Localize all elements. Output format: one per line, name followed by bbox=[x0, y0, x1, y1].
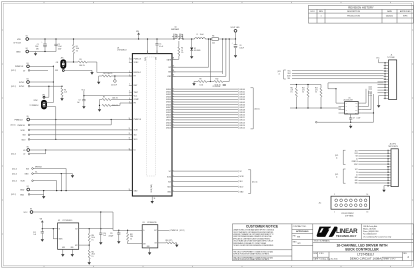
svg-text:⎜SCKI: ⎜SCKI bbox=[239, 175, 244, 178]
ground C7 bbox=[349, 124, 352, 128]
turret E6 LD bbox=[23, 147, 30, 152]
node stack A labels bbox=[352, 150, 359, 166]
junction C2 top bbox=[55, 38, 56, 39]
svg-text:LED15: LED15 bbox=[368, 94, 372, 96]
svg-text:⎜LED04: ⎜LED04 bbox=[239, 98, 245, 101]
junction R14 bot bbox=[89, 244, 90, 245]
junction R9/R10 bbox=[210, 81, 211, 82]
svg-text:DEMO CIRCUIT 1608A: DEMO CIRCUIT 1608A bbox=[350, 256, 381, 260]
junction U2 in bbox=[42, 228, 43, 229]
U1 left pin stubs bbox=[129, 59, 133, 191]
wire VCC riser bbox=[100, 212, 102, 229]
wire JP2 top pin bbox=[45, 86, 49, 97]
svg-text:PWMCLK: PWMCLK bbox=[18, 125, 26, 127]
title block outline bbox=[232, 224, 413, 261]
svg-text:TO PWMCLK: TO PWMCLK bbox=[30, 105, 39, 107]
junction JP1/R1 bbox=[73, 61, 74, 62]
svg-text:2200pF: 2200pF bbox=[109, 235, 114, 237]
svg-text:C14: C14 bbox=[103, 233, 106, 235]
wire U5 right riser d bbox=[362, 94, 374, 113]
pin SDI-EE row bbox=[12, 167, 42, 171]
wire eeprom SDA rail bbox=[290, 107, 341, 109]
svg-text:(DC1 2): (DC1 2) bbox=[11, 154, 16, 156]
svg-text:LT3745EUJ: LT3745EUJ bbox=[117, 50, 126, 52]
svg-text:(DC1: (DC1 bbox=[278, 71, 281, 73]
svg-text:(DC1 2): (DC1 2) bbox=[12, 181, 17, 183]
svg-text:⎜SDO: ⎜SDO bbox=[239, 185, 244, 188]
svg-text:10: 10 bbox=[181, 50, 183, 52]
svg-text:IC NO.: IC NO. bbox=[319, 253, 324, 255]
wire LED14 bbox=[172, 124, 245, 127]
wire J1 SCKI row bbox=[292, 75, 384, 77]
wire LED13 bbox=[172, 121, 245, 124]
svg-text:⎜LED10: ⎜LED10 bbox=[239, 114, 245, 117]
wire J1 gnd riser bbox=[379, 96, 384, 104]
wire U3 out bbox=[158, 229, 169, 231]
svg-text:(DC1: (DC1 bbox=[335, 155, 338, 157]
svg-text:(DC1 2): (DC1 2) bbox=[11, 194, 16, 196]
ground C14 bbox=[99, 241, 102, 245]
ground J4 bbox=[382, 188, 385, 192]
svg-text:CONTRACT NO.: CONTRACT NO. bbox=[293, 225, 307, 228]
svg-text:WP: WP bbox=[355, 106, 357, 108]
svg-text:R14: R14 bbox=[92, 235, 95, 237]
svg-text:10.0k: 10.0k bbox=[92, 237, 96, 239]
svg-text:0.1uF: 0.1uF bbox=[159, 46, 163, 48]
wire R6/R7 left join bbox=[100, 100, 103, 108]
wire J1 SDI row bbox=[292, 77, 384, 79]
wire J1 VCC row bbox=[292, 70, 384, 72]
svg-text:R12: R12 bbox=[302, 87, 305, 89]
svg-text:PWMCLK: PWMCLK bbox=[15, 119, 24, 121]
svg-text:GND: GND bbox=[20, 189, 25, 191]
wire R14 to BYP bbox=[79, 243, 90, 246]
ground JP1 bbox=[90, 70, 93, 74]
junction JP2/SDO bbox=[55, 139, 56, 140]
wire LED07 bbox=[172, 106, 245, 109]
junction R2 top bbox=[61, 86, 62, 87]
svg-text:PWMCLK: PWMCLK bbox=[15, 66, 24, 68]
resistor R15 bbox=[88, 245, 95, 260]
turret E3 PWMCLK bbox=[15, 63, 29, 68]
svg-text:63V: 63V bbox=[36, 48, 39, 50]
pin GND2 row bbox=[11, 194, 30, 197]
svg-text:JP2: JP2 bbox=[42, 94, 45, 96]
junction C5 top bbox=[156, 38, 157, 39]
svg-text:54.9k 1%: 54.9k 1% bbox=[215, 85, 222, 87]
svg-text:⎜LED06: ⎜LED06 bbox=[239, 103, 245, 106]
svg-text:L1: L1 bbox=[197, 34, 199, 36]
svg-text:OFF: OFF bbox=[55, 70, 58, 72]
U1 left pin numbers bbox=[129, 57, 131, 191]
svg-text:14: 14 bbox=[367, 194, 369, 196]
svg-text:C5: C5 bbox=[159, 44, 161, 46]
bottom pins bracket bbox=[248, 170, 258, 194]
svg-text:1uF: 1uF bbox=[77, 102, 80, 104]
wire LED11 bbox=[172, 116, 245, 119]
junction C15 bbox=[118, 230, 119, 231]
wire J1 SDO row bbox=[292, 72, 384, 74]
wire SCKI-EE row bbox=[33, 181, 56, 191]
wire U2 input bbox=[42, 228, 57, 230]
resistor R2 bbox=[61, 88, 67, 97]
wire LED02 bbox=[172, 93, 245, 96]
svg-text:SCKI: SCKI bbox=[21, 130, 26, 132]
resistor R1 bbox=[72, 39, 79, 62]
junction gnd row c bbox=[65, 190, 66, 191]
wire testpoint row bbox=[317, 121, 373, 123]
svg-text:⎜LED02: ⎜LED02 bbox=[239, 93, 245, 96]
svg-text:VIN2: VIN2 bbox=[167, 76, 171, 78]
transistor Q1 dual MOSFET bbox=[171, 27, 183, 39]
junction shdn bbox=[53, 228, 54, 229]
svg-text:24LC025-I/ST: 24LC025-I/ST bbox=[344, 100, 353, 102]
svg-text:SCKI: SCKI bbox=[21, 181, 26, 183]
svg-text:V+: V+ bbox=[143, 230, 145, 232]
svg-text:(DC1 2): (DC1 2) bbox=[11, 125, 16, 127]
capacitor C4 bbox=[111, 76, 117, 87]
svg-text:(DC1 2): (DC1 2) bbox=[11, 70, 16, 72]
svg-text:4.7k: 4.7k bbox=[291, 90, 294, 92]
wire riser PWMCLK2 bbox=[110, 120, 112, 125]
junction VIN2 bbox=[225, 38, 226, 39]
svg-text:⎜LED15: ⎜LED15 bbox=[239, 126, 245, 129]
svg-text:U3: U3 bbox=[143, 222, 145, 224]
wire ISN riser bbox=[172, 39, 223, 72]
revision history table bbox=[309, 5, 414, 23]
svg-text:E4: E4 bbox=[27, 79, 29, 81]
connector J1 bbox=[387, 55, 397, 100]
resistor R14 bbox=[88, 229, 95, 243]
wire VCC rail bottom bbox=[33, 211, 113, 213]
wire U2 out bbox=[79, 228, 113, 230]
svg-text:R19 (OPT): R19 (OPT) bbox=[166, 240, 173, 242]
wire U5 right riser a bbox=[362, 89, 366, 103]
wire SDO row bbox=[30, 138, 132, 140]
wire riser JP2 top bbox=[52, 66, 54, 102]
resistor R5 gate bbox=[178, 41, 184, 59]
wire SYNC2 row bbox=[30, 85, 62, 87]
svg-text:4.7k: 4.7k bbox=[302, 90, 305, 92]
wire SDA run bbox=[328, 82, 384, 84]
svg-text:ISET: ISET bbox=[134, 85, 138, 87]
U1 right pin numbers top bbox=[173, 58, 175, 77]
pin SCKI row bbox=[21, 129, 30, 132]
svg-text:SCKI: SCKI bbox=[287, 76, 291, 78]
svg-text:E2: E2 bbox=[26, 48, 28, 50]
wire R4 left riser bbox=[99, 76, 102, 80]
wire R19 to gnd bbox=[175, 242, 177, 244]
resistor R19 opt bbox=[166, 240, 176, 244]
node PWMCLK osc label bbox=[170, 229, 185, 232]
svg-text:E7: E7 bbox=[27, 186, 29, 188]
junction C1 top bbox=[44, 38, 45, 39]
svg-text:IN: IN bbox=[59, 228, 60, 230]
svg-text:+: + bbox=[42, 42, 43, 44]
svg-text:DFLS240: DFLS240 bbox=[194, 50, 201, 52]
stack B bracket bbox=[335, 169, 346, 183]
J1 pin number boxes bbox=[384, 62, 386, 99]
junction VOUT bbox=[235, 38, 236, 39]
wire LED09 bbox=[172, 111, 245, 114]
svg-text:28.0k: 28.0k bbox=[92, 254, 96, 256]
net label stack J1 bbox=[368, 85, 372, 96]
svg-text:GND: GND bbox=[355, 177, 358, 179]
svg-text:U2: U2 bbox=[58, 220, 60, 222]
wire SDO pin out bbox=[172, 185, 244, 188]
junction gnd row a bbox=[56, 190, 57, 191]
svg-text:1: 1 bbox=[320, 15, 321, 17]
svg-text:C3: C3 bbox=[79, 100, 81, 102]
junction R7 left bbox=[99, 105, 100, 106]
wire pullup top rail bbox=[290, 84, 321, 86]
svg-text:GND: GND bbox=[355, 180, 358, 182]
svg-text:BYP: BYP bbox=[75, 245, 78, 247]
svg-text:R18: R18 bbox=[130, 234, 133, 236]
svg-text:LT1761ES5-5: LT1761ES5-5 bbox=[63, 220, 73, 222]
junction R9R10 rail bbox=[210, 38, 211, 39]
wire stack A to J4 bbox=[358, 151, 387, 165]
date / sheet row bbox=[313, 257, 403, 260]
svg-text:232k: 232k bbox=[130, 236, 133, 238]
svg-text:R1: R1 bbox=[76, 46, 78, 48]
svg-text:100V: 100V bbox=[58, 48, 62, 50]
svg-text:SYNC: SYNC bbox=[354, 164, 358, 166]
junction R10 rail bbox=[229, 38, 230, 39]
svg-text:E3: E3 bbox=[27, 63, 29, 65]
contract no column bbox=[292, 224, 313, 261]
wire SDA drop bbox=[328, 83, 336, 89]
junction LD riser bbox=[45, 149, 46, 150]
junction PVIN bbox=[147, 38, 148, 39]
wire VIN2 riser bbox=[172, 39, 226, 76]
svg-text:GND: GND bbox=[355, 183, 358, 185]
jumper JP1 bbox=[55, 57, 66, 72]
svg-text:C4 10nF: C4 10nF bbox=[111, 85, 117, 87]
wire LED12 bbox=[172, 119, 245, 122]
wire SCKI pin out bbox=[172, 175, 244, 178]
svg-text:(DC1 2): (DC1 2) bbox=[252, 181, 258, 183]
svg-text:⎜SDI: ⎜SDI bbox=[239, 180, 243, 183]
wire VCC row to IC bbox=[84, 95, 132, 97]
svg-text:SYNC: SYNC bbox=[19, 82, 25, 84]
svg-text:Q1: Q1 bbox=[175, 27, 177, 29]
svg-text:(DC1 2): (DC1 2) bbox=[254, 108, 260, 110]
svg-text:LD: LD bbox=[356, 158, 358, 160]
ground R6/R7 bbox=[98, 108, 101, 112]
svg-text:100k 1%: 100k 1% bbox=[107, 73, 114, 75]
svg-text:SYNC: SYNC bbox=[134, 62, 139, 64]
resistor R13 pullup bbox=[315, 85, 322, 109]
junction pullups bbox=[296, 84, 309, 85]
wire VC pin bbox=[172, 170, 243, 173]
wire 5V row bbox=[30, 69, 48, 71]
wire LD to IC bbox=[30, 149, 133, 151]
U1 exposed pad ground bbox=[151, 196, 156, 204]
wire SDI row bbox=[30, 134, 132, 136]
junction gnd row b bbox=[61, 190, 62, 191]
turret E2 GND bbox=[16, 48, 29, 53]
VCC flag left bbox=[82, 89, 86, 95]
VIN net flag bbox=[136, 31, 140, 39]
svg-text:100uF: 100uF bbox=[240, 47, 244, 49]
svg-text:LTC6900CS5: LTC6900CS5 bbox=[147, 222, 157, 224]
svg-text:RT: RT bbox=[134, 76, 136, 78]
svg-text:10uH: 10uH bbox=[200, 34, 204, 36]
svg-text:(DC1 2): (DC1 2) bbox=[180, 230, 185, 232]
wire JP2 mid pin bbox=[45, 102, 53, 104]
wire LED06 bbox=[172, 103, 245, 106]
svg-text:TSET: TSET bbox=[134, 92, 138, 94]
U1 top pin names bbox=[145, 57, 157, 61]
wire R7 to IC bbox=[111, 103, 132, 105]
svg-text:⎜LED00: ⎜LED00 bbox=[239, 88, 245, 91]
junction PWMCLK riser bbox=[53, 66, 54, 67]
svg-text:VIN: VIN bbox=[40, 219, 43, 221]
svg-text:C12: C12 bbox=[33, 232, 36, 234]
svg-text:WPS: WPS bbox=[403, 15, 408, 17]
IC U5 24LC025 bbox=[341, 98, 362, 115]
svg-text:PWMCLK: PWMCLK bbox=[134, 59, 142, 61]
ground GND2 bbox=[42, 194, 45, 198]
svg-text:VCC: VCC bbox=[355, 103, 358, 105]
inductor L1 bbox=[195, 34, 206, 39]
turret E9 VCC bbox=[24, 209, 33, 214]
svg-text:Fax: (408)434-0507: Fax: (408)434-0507 bbox=[363, 234, 377, 236]
svg-text:⎜LED09: ⎜LED09 bbox=[239, 111, 245, 114]
wire GND pin out bbox=[172, 190, 244, 193]
wire Q1 to SW node bbox=[183, 38, 195, 40]
svg-text:TITLE: SCHEMATIC: TITLE: SCHEMATIC bbox=[314, 240, 331, 243]
wire LED04 bbox=[172, 98, 245, 101]
svg-text:(DC1 2): (DC1 2) bbox=[12, 168, 17, 170]
jumper JP2 bbox=[30, 94, 47, 108]
resistor R4 divider top bbox=[102, 73, 113, 77]
wire SDI-EE row bbox=[33, 169, 66, 191]
svg-text:R10: R10 bbox=[216, 79, 219, 81]
junction C4 bbox=[114, 75, 115, 76]
svg-text:VIN: VIN bbox=[155, 57, 157, 60]
wire LED15 bbox=[172, 126, 245, 129]
capacitor C15 bbox=[109, 230, 121, 239]
wire riser GND2 bbox=[43, 191, 45, 195]
svg-text:⎜LED03: ⎜LED03 bbox=[239, 96, 245, 99]
svg-text:(TOP VIEW): (TOP VIEW) bbox=[345, 215, 354, 217]
junction JP2/PWMCLK bbox=[55, 119, 56, 120]
capacitor C8 sense bbox=[213, 72, 226, 88]
capacitor C12 bbox=[33, 229, 44, 238]
wire R8 to VOUT bbox=[218, 38, 235, 40]
pin PWMCLK2 row bbox=[11, 124, 30, 127]
wire eeprom vss bbox=[339, 112, 342, 114]
wire R10 riser bbox=[223, 39, 229, 82]
svg-text:R2: R2 bbox=[64, 89, 66, 91]
svg-text:TECHNOLOGY: TECHNOLOGY bbox=[336, 234, 356, 238]
svg-text:PWMCLK: PWMCLK bbox=[134, 119, 142, 121]
svg-text:SCL: SCL bbox=[355, 109, 358, 111]
node stack B labels bbox=[355, 169, 358, 185]
capacitor C5 bbox=[155, 39, 163, 54]
svg-text:C6: C6 bbox=[240, 45, 242, 47]
customer notice box bbox=[232, 224, 292, 261]
svg-text:SHEET 1 OF 2: SHEET 1 OF 2 bbox=[383, 259, 395, 261]
turret E4 SYNC bbox=[19, 79, 29, 84]
pin SYNC2 row bbox=[11, 85, 30, 88]
svg-text:SCKI: SCKI bbox=[134, 130, 138, 132]
ground J1 bbox=[377, 104, 380, 108]
wire R18 to SET bbox=[128, 242, 143, 244]
junction R1 top bbox=[73, 38, 74, 39]
svg-text:PWMCLK: PWMCLK bbox=[352, 161, 358, 163]
svg-text:APPROVALS: APPROVALS bbox=[296, 230, 309, 233]
ground (input) bbox=[34, 52, 37, 56]
wire PVIN riser bbox=[147, 39, 149, 54]
svg-text:E9: E9 bbox=[30, 209, 32, 211]
svg-text:C1: C1 bbox=[37, 44, 39, 46]
turret E1 VIN bbox=[14, 36, 29, 45]
U1 right pin names bbox=[166, 58, 172, 193]
part number row bbox=[313, 252, 409, 261]
wire VCC to U3 bbox=[113, 212, 142, 230]
wire LED03 bbox=[172, 96, 245, 99]
svg-text:C2: C2 bbox=[58, 44, 60, 46]
J4 pin number boxes bbox=[387, 150, 389, 187]
svg-text:R6: R6 bbox=[103, 97, 105, 99]
svg-text:VOUT LED: VOUT LED bbox=[231, 27, 241, 29]
svg-text:13: 13 bbox=[367, 212, 369, 214]
wire GATE pin bbox=[172, 58, 179, 60]
svg-text:0.1uF: 0.1uF bbox=[357, 118, 361, 120]
wire J4 gnd bbox=[384, 186, 387, 188]
svg-text:2.2k: 2.2k bbox=[64, 92, 67, 94]
junction VCC cap bbox=[83, 95, 84, 96]
wire PWMCLK2 row bbox=[30, 124, 111, 126]
ground D2 bbox=[190, 55, 193, 59]
capacitor C14 bbox=[99, 229, 106, 241]
wire SDI pin out bbox=[172, 180, 243, 183]
junction R18 bbox=[127, 230, 128, 231]
capacitor C1 bbox=[35, 39, 47, 52]
svg-text:GND: GND bbox=[16, 52, 21, 54]
svg-text:DATE: DATE bbox=[387, 10, 393, 13]
title rows bbox=[313, 240, 414, 252]
junction SDA testrow bbox=[373, 112, 374, 113]
junction U2 out b bbox=[100, 228, 101, 229]
svg-text:⎜GND: ⎜GND bbox=[239, 190, 245, 193]
svg-text:C15: C15 bbox=[110, 233, 113, 235]
svg-text:⎜PWMCLK: ⎜PWMCLK bbox=[170, 229, 179, 232]
svg-text:1uF: 1uF bbox=[34, 234, 37, 236]
resistor R11 pullup bbox=[291, 85, 298, 109]
capacitor C7 bbox=[349, 114, 360, 122]
svg-text:PRODUCTION: PRODUCTION bbox=[347, 15, 360, 17]
svg-text:SDO: SDO bbox=[22, 139, 26, 141]
pin SDI row bbox=[23, 134, 30, 137]
oscillator U3 LTC6900 bbox=[142, 222, 158, 251]
ground GND-EE bbox=[71, 174, 74, 178]
svg-text:OUT: OUT bbox=[75, 228, 78, 230]
wire R9 to R10 bbox=[207, 81, 214, 83]
svg-text:PVIN: PVIN bbox=[145, 57, 147, 61]
svg-text:R8: R8 bbox=[212, 35, 214, 37]
svg-text:U5: U5 bbox=[349, 98, 351, 100]
svg-text:22uF: 22uF bbox=[35, 46, 39, 48]
svg-text:R11: R11 bbox=[291, 87, 294, 89]
junction C1 bottom bbox=[44, 51, 45, 52]
wire R4 to IC bbox=[111, 75, 132, 77]
junction ISP bbox=[208, 38, 209, 39]
resistor R18 bbox=[127, 230, 134, 241]
